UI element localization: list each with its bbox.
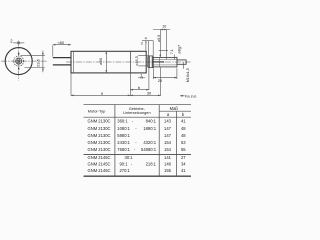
svg-text:-: - xyxy=(134,147,136,152)
svg-text:GNM 2145C: GNM 2145C xyxy=(88,162,111,167)
dimension 50 dimension line xyxy=(53,44,71,46)
svg-text:147: 147 xyxy=(164,133,172,138)
end view shaft circle xyxy=(16,58,22,64)
svg-text:53: 53 xyxy=(181,140,186,145)
dimension ⌀6,5 extension arrow xyxy=(159,30,161,57)
terminal pin upper xyxy=(53,57,71,59)
svg-text:a: a xyxy=(101,91,104,96)
table vertical rule 2 xyxy=(158,105,160,177)
table Mass underline xyxy=(159,110,191,112)
svg-text:48: 48 xyxy=(181,126,186,131)
svg-text:5880:1: 5880:1 xyxy=(117,133,130,138)
svg-text:41: 41 xyxy=(181,119,186,124)
svg-text:147: 147 xyxy=(164,126,172,131)
Fa zul arrow xyxy=(180,95,185,97)
svg-text:30:1: 30:1 xyxy=(125,155,134,160)
dimension ⌀16,5 extension lines xyxy=(138,55,148,57)
end view horizontal centerline xyxy=(1,60,47,62)
svg-text:148: 148 xyxy=(164,162,172,167)
svg-text:1890:1: 1890:1 xyxy=(143,126,156,131)
svg-text:⌀30: ⌀30 xyxy=(98,57,103,65)
shaft step tick xyxy=(176,57,178,68)
svg-text:M16x1,5: M16x1,5 xyxy=(186,68,190,82)
end view bearing boss circle xyxy=(14,56,24,66)
svg-text:⌀16,5: ⌀16,5 xyxy=(135,56,139,65)
svg-text:Fa zul.: Fa zul. xyxy=(185,94,197,99)
dimension b extension line xyxy=(148,68,150,90)
svg-text:4320:1: 4320:1 xyxy=(143,140,156,145)
extension line at shaft xyxy=(166,30,168,60)
dimension a dimension line xyxy=(71,94,130,96)
table header separator xyxy=(84,116,192,118)
end view vertical centerline xyxy=(18,41,20,81)
slot dimension arrows on centerline xyxy=(18,53,20,70)
dimension 10 dimension line xyxy=(153,29,170,31)
dimension a left extension xyxy=(70,73,72,96)
svg-text:GNM 2130C: GNM 2130C xyxy=(88,119,111,124)
svg-text:≈50: ≈50 xyxy=(58,40,65,45)
table bottom border xyxy=(84,175,192,177)
threaded sleeve M16x1,5 xyxy=(153,57,177,67)
svg-text:270:1: 270:1 xyxy=(120,168,131,173)
inner shaft dark line through sleeve xyxy=(153,61,165,63)
svg-text:90:1: 90:1 xyxy=(120,162,129,167)
table vertical rule 3 xyxy=(176,111,178,176)
motor/gearbox joint line xyxy=(129,51,131,73)
terminal pin lower xyxy=(53,64,71,66)
dimension 23,5 lower extension line xyxy=(25,67,45,69)
dimension 2 leader line xyxy=(13,42,24,44)
svg-text:154: 154 xyxy=(164,140,172,145)
svg-text:34: 34 xyxy=(181,162,186,167)
dimension 30 dimension line xyxy=(130,94,160,96)
svg-text:7680:1: 7680:1 xyxy=(117,147,130,152)
svg-text:155: 155 xyxy=(164,168,172,173)
dimension 2 ticks xyxy=(17,42,19,45)
svg-text:-: - xyxy=(135,126,137,131)
svg-text:Untersetzungen: Untersetzungen xyxy=(123,110,150,115)
dimension 1 ticks xyxy=(140,77,142,79)
svg-text:840:1: 840:1 xyxy=(146,119,157,124)
output shaft xyxy=(177,60,186,64)
svg-text:⌀8g7: ⌀8g7 xyxy=(176,45,181,54)
svg-text:-: - xyxy=(135,140,137,145)
svg-text:GNM 2130C: GNM 2130C xyxy=(88,126,111,131)
svg-text:Motor-Typ: Motor-Typ xyxy=(88,108,106,113)
dimension 23,5 upper extension line xyxy=(21,55,45,57)
table top border xyxy=(84,104,192,106)
svg-text:-: - xyxy=(132,119,134,124)
table xyxy=(84,105,192,177)
svg-text:141: 141 xyxy=(164,155,172,160)
svg-text:27: 27 xyxy=(181,155,186,160)
svg-text:GNM 2130C: GNM 2130C xyxy=(88,140,111,145)
svg-text:218:1: 218:1 xyxy=(146,162,157,167)
washer line at gearbox face xyxy=(146,56,148,67)
svg-text:2430:1: 2430:1 xyxy=(117,140,130,145)
table vertical rule 1 xyxy=(114,105,116,177)
dimension 50 left extension line xyxy=(52,45,54,56)
svg-text:3: 3 xyxy=(141,41,143,45)
end view outer circle (motor body ⌀30) xyxy=(5,48,32,75)
motor body outline xyxy=(71,51,146,73)
svg-text:⌀6,5: ⌀6,5 xyxy=(157,35,161,42)
dimension b dimension line xyxy=(130,89,149,91)
motor end cap line xyxy=(73,51,75,73)
svg-text:54880:1: 54880:1 xyxy=(141,147,157,152)
svg-text:48: 48 xyxy=(181,133,186,138)
svg-text:360:1: 360:1 xyxy=(117,119,128,124)
dimension 20 dimension line xyxy=(153,77,177,79)
dimension 20 extension lines xyxy=(152,68,154,79)
shaft slot lines xyxy=(16,58,22,64)
svg-text:Maß: Maß xyxy=(170,106,179,111)
svg-text:7,1: 7,1 xyxy=(170,49,174,54)
svg-text:154: 154 xyxy=(164,147,172,152)
svg-text:1080:1: 1080:1 xyxy=(117,126,130,131)
svg-text:30: 30 xyxy=(147,91,152,96)
dimension 30 extension line xyxy=(160,68,162,96)
svg-text:GNM 2130C: GNM 2130C xyxy=(88,147,111,152)
svg-text:GNM 2130C: GNM 2130C xyxy=(88,133,111,138)
svg-text:-: - xyxy=(131,162,133,167)
svg-text:b: b xyxy=(182,112,185,117)
svg-text:b: b xyxy=(138,85,141,90)
svg-text:GNM 2145C: GNM 2145C xyxy=(88,155,111,160)
side view centerline xyxy=(66,61,191,63)
flange ring xyxy=(148,56,153,68)
svg-text:10: 10 xyxy=(162,25,166,29)
leader line 7,1 horizontal xyxy=(159,50,168,52)
dimension 3-4 extension lines xyxy=(145,41,147,51)
dimension 23,5 dimension line with arrows xyxy=(42,51,44,73)
svg-text:a: a xyxy=(167,112,170,117)
dimension ⌀30 arrow line xyxy=(105,51,107,73)
svg-text:4: 4 xyxy=(145,37,147,41)
dimension b joint extension xyxy=(129,73,131,96)
dimension M16x1,5 leader xyxy=(182,62,184,68)
table group separator xyxy=(84,154,192,156)
dimension 7,1 leader xyxy=(173,55,175,60)
svg-text:GNM 2145C: GNM 2145C xyxy=(88,168,111,173)
svg-text:23,5: 23,5 xyxy=(36,58,41,67)
svg-text:2: 2 xyxy=(10,39,13,44)
dimension 3-4 dimension line xyxy=(142,40,154,42)
svg-text:143: 143 xyxy=(164,119,172,124)
svg-text:55: 55 xyxy=(181,147,186,152)
svg-text:41: 41 xyxy=(181,168,186,173)
